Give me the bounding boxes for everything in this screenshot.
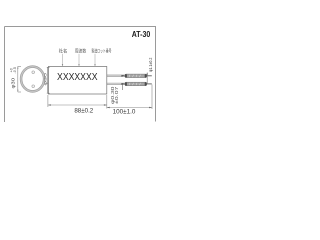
svg-text:周波数: 周波数 xyxy=(75,47,87,54)
svg-text:XXXXXXX: XXXXXXX xyxy=(57,72,98,83)
svg-text:φ30: φ30 xyxy=(43,72,48,86)
svg-text:製造ロット番号: 製造ロット番号 xyxy=(92,47,112,54)
svg-text:AT-30: AT-30 xyxy=(132,30,151,39)
svg-text:φ30: φ30 xyxy=(11,78,17,89)
svg-text:100±1.0: 100±1.0 xyxy=(113,108,136,115)
svg-text:88±0.2: 88±0.2 xyxy=(74,108,93,115)
svg-text:φ1.1±0.2: φ1.1±0.2 xyxy=(148,57,153,72)
svg-text:社名: 社名 xyxy=(59,47,68,54)
svg-text:-0.5: -0.5 xyxy=(13,67,17,73)
svg-text:±0.07: ±0.07 xyxy=(114,86,119,104)
